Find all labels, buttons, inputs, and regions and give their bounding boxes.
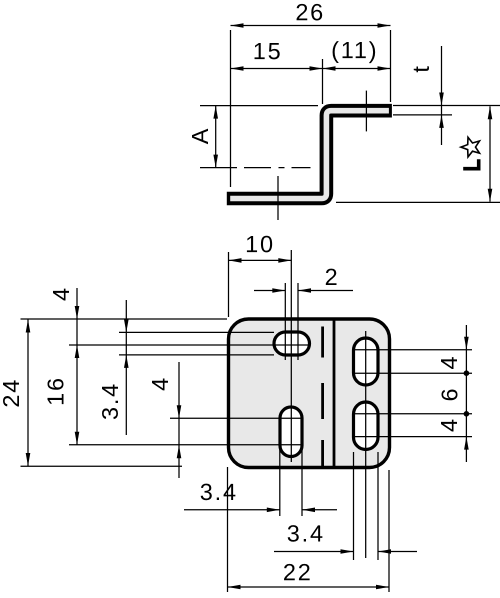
wire: extension line left (x=230.5) [230, 30, 232, 187]
wire: extension line middle (x=322.5) [322, 59, 324, 104]
svg-text:4: 4 [436, 417, 462, 432]
wire: tick on top flange (x=366.4) [365, 91, 367, 132]
dimension (11) line [323, 66, 391, 71]
dimension 4 bottom-left line (x=179) [177, 362, 182, 478]
wire: bottom-left slot top arc h-line (y=418.3) [170, 417, 303, 419]
dimension 3.4 bottom #1 line (y=509.8) [184, 508, 337, 513]
wire: centerline dash-dot (y=167.6) [200, 167, 311, 169]
dimension 22 line (y=587) [228, 585, 390, 590]
wire: slot center h-line (y=345) [69, 344, 310, 346]
part: slot bottom-left [280, 407, 302, 457]
svg-text:4: 4 [147, 376, 173, 391]
dimension 26 line [231, 23, 391, 28]
wire: right slot arc h-lines [353, 350, 472, 437]
svg-text:24: 24 [0, 378, 24, 408]
svg-text:t: t [408, 64, 434, 72]
wire: t extension bottom (y=114.9) [393, 114, 452, 116]
part: bend line dashed (x=322.6) [321, 327, 324, 467]
wire: 3.4#2 left extension (x=353.5) [353, 452, 355, 560]
wire: 3.4#1 right extension (x=302) [301, 446, 303, 516]
svg-text:3.4: 3.4 [97, 382, 123, 420]
dimension A line [213, 106, 218, 168]
wire: 3.4#2 right extension (x=378) [377, 452, 379, 560]
svg-text:10: 10 [245, 231, 275, 257]
wire: right slots centerline (x=365.7) [365, 331, 367, 558]
wire: 22 left extension (x=227.5) [227, 467, 229, 592]
dimension 15 line [231, 66, 323, 71]
svg-text:26: 26 [295, 0, 325, 25]
wire: 10-dim left extension (x=228.5) [228, 252, 230, 317]
dimension 3.4 left line (x=126.3) [124, 300, 129, 435]
wire: tick on bottom flange (x=278) [277, 176, 279, 220]
wire: 2-dim right extension (x=298) [297, 283, 299, 360]
svg-text:6: 6 [437, 387, 463, 402]
svg-text:4: 4 [48, 286, 74, 301]
svg-text:15: 15 [253, 38, 283, 64]
part: slot top-left [274, 332, 310, 355]
wire: A extension top (y=105.6) [200, 105, 318, 107]
wire: 22 right extension (x=389) [388, 470, 390, 592]
part: plate [229, 319, 390, 468]
wire: L extension bottom (y=202.4) [336, 201, 500, 203]
dimension 4/6/4 right line (x=466.4) [464, 325, 470, 462]
svg-text:2: 2 [325, 264, 340, 290]
wire: plate bottom extension (y=466.3) [21, 465, 183, 467]
part: Z-profile strip outer (black) [227, 111, 392, 199]
dimension 10 line [229, 258, 292, 263]
dimension t line [439, 46, 444, 145]
dimension 2 line [254, 288, 353, 293]
wire: slot bottom edge extension (y=354.9) [119, 354, 274, 356]
dimension 3.4 bottom #2 line (y=551.5) [274, 549, 417, 554]
part: slot right-top [354, 338, 379, 385]
svg-text:3.4: 3.4 [200, 479, 238, 505]
svg-text:16: 16 [43, 376, 69, 406]
part: bend line solid (x=334) [333, 321, 336, 467]
dimension 24 line [26, 320, 31, 467]
svg-text:22: 22 [283, 559, 313, 585]
wire: left slots centerline (x=291.3) [290, 250, 292, 462]
wire: t/L extension top (y=105.5) [393, 105, 500, 107]
svg-text:4: 4 [436, 355, 462, 370]
part: slot right-bottom [354, 402, 379, 450]
wire: slot bottom arc h-line (y=444.8) [69, 444, 303, 446]
svg-text:(11): (11) [331, 37, 378, 63]
wire: extension line right (x=390.5) [390, 30, 392, 102]
dimension L line [488, 106, 493, 201]
wire: slot top edge extension (y=332.4) [119, 331, 274, 333]
wire: plate top extension (y=319) [21, 318, 228, 320]
svg-text:A: A [187, 127, 213, 144]
svg-text:3.4: 3.4 [287, 520, 325, 546]
wire: 2-dim left extension (x=285.3) [284, 283, 286, 360]
label L [463, 159, 479, 168]
label star [461, 137, 480, 157]
wire: 3.4#1 left extension (x=279.8) [279, 446, 281, 516]
part: Z-profile strip core (gray) [230, 111, 389, 199]
dimension 4/16 line (x=77) [75, 288, 80, 445]
